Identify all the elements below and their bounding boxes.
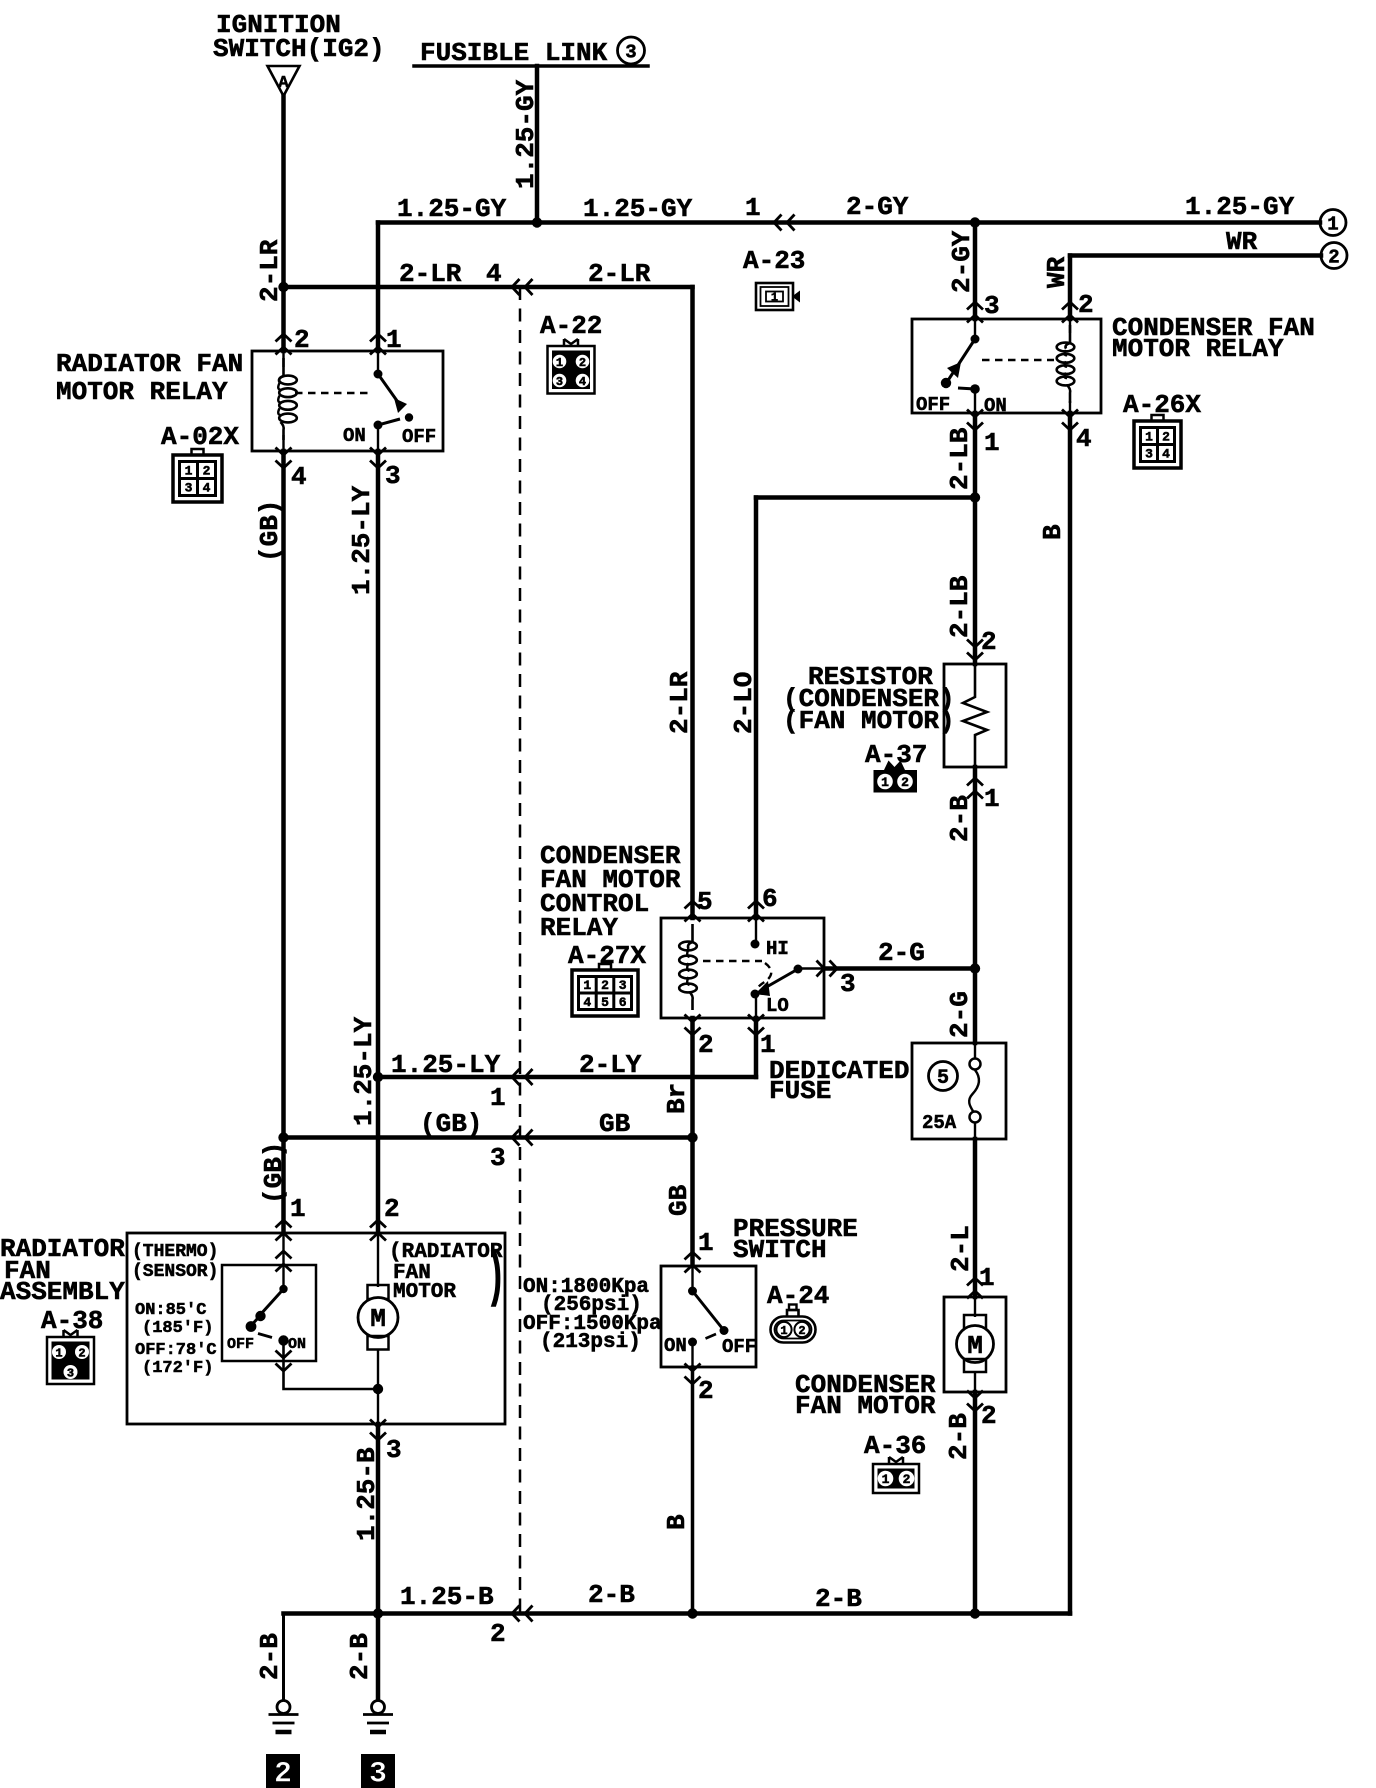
wire <box>974 393 976 413</box>
contact mid <box>255 1311 265 1321</box>
svg-text:MOTOR: MOTOR <box>393 1281 456 1304</box>
wire Br/GB ctrl pin2 to pressure switch <box>690 1018 695 1266</box>
wire 2-LR down to ctrl relay pin5 <box>690 287 695 918</box>
thermo sensor exit chevrons <box>276 1364 292 1372</box>
ground marker square 3 <box>361 1754 395 1788</box>
wire 2-LO down to ctrl relay pin6 <box>754 498 759 919</box>
svg-text:WR: WR <box>1042 256 1072 288</box>
svg-text:ON:85'C: ON:85'C <box>135 1301 206 1320</box>
svg-text:MOTOR RELAY: MOTOR RELAY <box>56 377 228 407</box>
wire <box>763 969 798 989</box>
svg-text:3: 3 <box>625 41 636 63</box>
svg-text:1.25-LY: 1.25-LY <box>349 1016 379 1126</box>
wire <box>377 429 379 451</box>
svg-text:1.25-GY: 1.25-GY <box>511 79 541 189</box>
svg-text:1: 1 <box>1145 430 1153 445</box>
contact common <box>374 370 383 379</box>
pin 6 chevrons control relay <box>748 901 764 909</box>
svg-text:1: 1 <box>386 325 402 355</box>
svg-text:ON: ON <box>288 1336 306 1353</box>
svg-text:GB: GB <box>599 1109 631 1139</box>
junction <box>687 1608 697 1618</box>
pin 2 chevrons control relay <box>685 1028 701 1036</box>
pin 1 chevrons condenser motor <box>967 1278 983 1286</box>
wire 1.25-GY bus <box>378 220 1320 225</box>
connector A-37 <box>874 761 918 793</box>
wire <box>974 1043 976 1058</box>
svg-text:1.25-GY: 1.25-GY <box>583 194 693 224</box>
svg-text:2-LB: 2-LB <box>945 575 975 638</box>
svg-text:2: 2 <box>384 1194 400 1224</box>
svg-text:1: 1 <box>185 464 193 479</box>
svg-text:A-22: A-22 <box>540 311 602 341</box>
svg-text:B: B <box>1038 524 1068 540</box>
contact common <box>971 335 980 344</box>
wire <box>755 918 757 944</box>
svg-text:1.25-LY: 1.25-LY <box>347 485 377 595</box>
svg-text:3: 3 <box>619 978 627 993</box>
svg-text:M: M <box>370 1304 386 1334</box>
svg-text:1: 1 <box>979 1263 995 1293</box>
wire 2-B to ground 2 <box>282 1614 285 1701</box>
pin 2 chevrons condenser relay <box>1062 302 1078 310</box>
svg-text:(172'F): (172'F) <box>142 1359 213 1378</box>
wire <box>958 388 975 389</box>
svg-text:A: A <box>278 74 289 93</box>
connector A-02X <box>173 449 222 502</box>
svg-text:OFF: OFF <box>402 426 436 448</box>
svg-text:2-G: 2-G <box>878 938 925 968</box>
svg-text:2: 2 <box>1162 430 1170 445</box>
junction <box>278 282 288 292</box>
dashed link single dash <box>258 1334 272 1338</box>
svg-text:2: 2 <box>274 1758 292 1788</box>
connector pass 3 on GB <box>512 1130 520 1146</box>
ignition switch terminal A triangle <box>268 66 300 96</box>
svg-text:2: 2 <box>579 356 586 370</box>
svg-text:OFF:78'C: OFF:78'C <box>135 1341 217 1360</box>
svg-text:ASSEMBLY: ASSEMBLY <box>0 1277 125 1307</box>
svg-text:2-LO: 2-LO <box>729 672 759 734</box>
svg-text:2-B: 2-B <box>945 795 975 842</box>
svg-text:1: 1 <box>882 1472 890 1487</box>
wire <box>691 1266 693 1291</box>
svg-text:1: 1 <box>984 428 1000 458</box>
svg-text:4: 4 <box>1162 447 1170 462</box>
svg-text:GB: GB <box>664 1184 694 1216</box>
svg-text:1: 1 <box>745 193 761 223</box>
contact top <box>688 1287 697 1296</box>
fusible link underline <box>414 64 648 68</box>
wire <box>377 1233 379 1287</box>
svg-text:1: 1 <box>771 291 778 305</box>
svg-text:A-24: A-24 <box>767 1281 829 1311</box>
svg-text:2: 2 <box>601 978 609 993</box>
svg-text:WR: WR <box>1226 227 1258 257</box>
wire 2-LY riser to ctrl pin1 <box>754 1018 759 1077</box>
connector A-26X <box>1134 415 1181 468</box>
wire 2-G from ctrl relay pin3 <box>824 966 975 971</box>
svg-text:25A: 25A <box>922 1112 957 1134</box>
svg-text:B: B <box>662 1514 692 1530</box>
svg-text:FUSE: FUSE <box>769 1076 831 1106</box>
svg-text:(GB): (GB) <box>255 500 285 562</box>
wire <box>377 1350 379 1425</box>
svg-text:3: 3 <box>386 1435 402 1465</box>
svg-text:ON: ON <box>984 395 1007 417</box>
svg-text:2-GY: 2-GY <box>846 192 909 222</box>
pin 5 chevrons control relay <box>685 901 701 909</box>
svg-text:1: 1 <box>290 1194 306 1224</box>
pin 2 chevrons resistor <box>967 653 983 661</box>
svg-text:ON: ON <box>664 1335 687 1357</box>
coil control relay <box>688 924 693 949</box>
junction <box>278 1132 288 1142</box>
connector pass 1 on 1.25-GY bus <box>774 215 782 231</box>
wire 2-GY drop to cond relay pin3 <box>973 223 978 320</box>
svg-text:2-B: 2-B <box>815 1584 862 1614</box>
svg-text:1: 1 <box>881 775 889 790</box>
wire 2-LR ignition drop <box>281 96 286 351</box>
pin 1 chevrons control relay <box>748 1028 764 1036</box>
svg-text:1: 1 <box>583 978 591 993</box>
wire <box>378 374 400 405</box>
wire B pressure switch to bus <box>691 1367 695 1614</box>
svg-text:3: 3 <box>556 375 563 389</box>
junction <box>532 217 542 227</box>
svg-text:1: 1 <box>55 1346 62 1360</box>
svg-text:2-LR: 2-LR <box>255 239 285 302</box>
pin 2 chevrons condenser motor <box>967 1404 983 1412</box>
wire (GB) radiator relay pin4 down <box>281 451 286 1233</box>
svg-text:SWITCH: SWITCH <box>733 1235 827 1265</box>
connector A-23 <box>756 283 800 310</box>
ground 2 <box>269 1701 299 1733</box>
wire <box>260 1289 284 1315</box>
junction <box>373 1072 383 1082</box>
svg-text:1.25-GY: 1.25-GY <box>397 194 507 224</box>
wire B cond relay pin4 down <box>1068 413 1073 1614</box>
dashed harness boundary <box>519 287 522 1614</box>
svg-text:2: 2 <box>1078 290 1094 320</box>
relay actuation dashed link <box>982 359 1054 361</box>
connector pass 1 on 2-LY <box>512 1069 520 1085</box>
svg-text:2-LR: 2-LR <box>399 259 462 289</box>
wire 2-LB cond relay pin1 to resistor <box>973 413 978 664</box>
wire <box>252 1317 260 1326</box>
pin 1 chevrons resistor <box>967 778 983 786</box>
wire <box>974 1372 976 1392</box>
svg-text:2-G: 2-G <box>945 991 975 1038</box>
svg-text:(SENSOR): (SENSOR) <box>132 1262 218 1282</box>
svg-text:3: 3 <box>1145 447 1153 462</box>
svg-text:OFF: OFF <box>227 1336 254 1353</box>
svg-text:ON: ON <box>343 425 366 447</box>
connector pass 2 on 2-B bus <box>512 1606 520 1622</box>
resistor box A-37 <box>944 664 1006 767</box>
pin 3 chevrons radiator relay <box>370 461 386 469</box>
svg-text:4: 4 <box>291 462 307 492</box>
thermo sensor box <box>222 1265 316 1361</box>
wire WR drop to cond relay pin2 <box>1068 256 1073 320</box>
wire 2-LB/2-LO branch <box>756 495 975 500</box>
svg-text:1.25-B: 1.25-B <box>352 1447 382 1541</box>
svg-text:2: 2 <box>698 1030 714 1060</box>
connector A-36 <box>873 1457 919 1493</box>
contact OFF <box>405 413 413 421</box>
svg-text:4: 4 <box>1076 424 1092 454</box>
dashed link single dash <box>706 1334 717 1339</box>
svg-text:(GB): (GB) <box>420 1109 482 1139</box>
wire <box>377 351 379 374</box>
ground marker square 2 <box>266 1754 300 1788</box>
svg-text:A-02X: A-02X <box>161 422 239 452</box>
condenser fan motor box <box>944 1297 1006 1392</box>
ground 3 <box>363 1701 393 1733</box>
wire 2-LY horizontal <box>378 1075 756 1080</box>
wire 2-LR horizontal <box>284 285 693 290</box>
junction <box>373 1608 383 1618</box>
wire <box>755 996 757 1018</box>
junction <box>970 492 980 502</box>
svg-text:2: 2 <box>490 1619 506 1649</box>
dedicated fuse box <box>912 1043 1006 1139</box>
pin 2 chevrons assembly <box>370 1220 386 1228</box>
relay actuation dashed link <box>295 392 370 394</box>
svg-text:2-L: 2-L <box>946 1225 976 1272</box>
svg-text:2: 2 <box>901 775 909 790</box>
svg-text:2-B: 2-B <box>588 1580 635 1610</box>
wire 2-L fuse to condenser fan motor <box>973 1139 978 1297</box>
svg-text:5: 5 <box>697 887 713 917</box>
svg-text:3: 3 <box>840 969 856 999</box>
connector pass 4 on 2-LR <box>512 279 520 295</box>
pin 2 chevrons radiator relay <box>276 334 292 342</box>
svg-text:A-38: A-38 <box>41 1306 103 1336</box>
wire <box>798 967 824 969</box>
svg-text:1: 1 <box>490 1083 506 1113</box>
svg-text:3: 3 <box>185 481 193 496</box>
svg-text:RADIATOR FAN: RADIATOR FAN <box>56 349 243 379</box>
svg-text:3: 3 <box>984 291 1000 321</box>
svg-text:(213psi): (213psi) <box>540 1331 641 1354</box>
svg-text:2-LR: 2-LR <box>588 259 651 289</box>
svg-text:(RADIATOR: (RADIATOR <box>389 1241 503 1264</box>
svg-text:2: 2 <box>981 627 997 657</box>
wire <box>974 1122 976 1139</box>
fuse number circle 5 <box>929 1062 958 1091</box>
wire <box>947 339 975 382</box>
svg-text:M: M <box>967 1331 983 1361</box>
wire <box>378 419 400 425</box>
svg-text:4: 4 <box>486 259 502 289</box>
terminal circle 1 <box>1320 210 1346 236</box>
wire <box>969 1070 979 1112</box>
wire 2-B/2-G resistor to fuse <box>973 767 978 1043</box>
fusible link circle 3 <box>618 37 645 64</box>
svg-text:): ) <box>487 1246 505 1311</box>
contact top <box>279 1285 287 1293</box>
contact ON <box>688 1338 697 1347</box>
svg-text:2: 2 <box>78 1346 85 1360</box>
svg-text:(185'F): (185'F) <box>142 1319 213 1338</box>
svg-text:OFF: OFF <box>722 1336 756 1358</box>
svg-text:1: 1 <box>984 784 1000 814</box>
wire 1.25-GY drop to relay pin1 <box>376 223 381 352</box>
relay box radiator fan motor relay <box>252 351 443 451</box>
coil radiator fan motor relay <box>279 358 284 382</box>
wire <box>974 1297 976 1317</box>
wire <box>282 1233 284 1289</box>
svg-text:2: 2 <box>798 1324 805 1338</box>
contact common <box>794 965 803 974</box>
junction <box>970 1608 980 1618</box>
svg-text:3: 3 <box>369 1758 387 1788</box>
svg-text:2: 2 <box>903 1472 911 1487</box>
svg-text:2: 2 <box>203 464 211 479</box>
thermo sensor entry chevrons <box>276 1251 292 1259</box>
pin 1 chevrons radiator relay <box>370 334 386 342</box>
pin 1 chevrons pressure switch <box>685 1252 701 1260</box>
svg-text:1.25-GY: 1.25-GY <box>1185 192 1295 222</box>
wire thermo to motor link <box>284 1341 379 1390</box>
svg-text:A-36: A-36 <box>864 1431 926 1461</box>
relay dashed arc <box>757 963 771 989</box>
connector A-38 <box>47 1330 94 1384</box>
pin 3 chevrons condenser relay <box>967 302 983 310</box>
svg-text:SWITCH(IG2): SWITCH(IG2) <box>213 34 385 64</box>
svg-text:2-B: 2-B <box>345 1633 375 1680</box>
contact OFF <box>941 378 951 388</box>
svg-text:Br: Br <box>662 1083 692 1114</box>
svg-text:2-LB: 2-LB <box>945 427 975 490</box>
svg-text:(THERMO): (THERMO) <box>132 1242 218 1262</box>
contact OFF side <box>720 1326 729 1335</box>
wire <box>691 1342 693 1367</box>
junction <box>373 1384 383 1394</box>
contact ON <box>374 421 383 430</box>
svg-text:A-23: A-23 <box>743 246 805 276</box>
svg-text:6: 6 <box>762 884 778 914</box>
terminal circle 2 <box>1321 243 1347 269</box>
svg-text:2-GY: 2-GY <box>947 230 977 293</box>
svg-text:MOTOR RELAY: MOTOR RELAY <box>1112 334 1284 364</box>
pin 1 chevrons assembly <box>276 1220 292 1228</box>
wire 1.25-LY relay pin3 down <box>376 451 381 1233</box>
connector A-24 <box>771 1305 816 1343</box>
svg-text:FAN MOTOR: FAN MOTOR <box>795 1391 936 1421</box>
svg-text:4: 4 <box>583 995 591 1010</box>
svg-text:1: 1 <box>780 1324 787 1338</box>
wire <box>1069 319 1071 413</box>
wire <box>963 664 987 767</box>
pin 1 chevrons condenser relay <box>967 423 983 431</box>
pin 4 chevrons condenser relay <box>1062 423 1078 431</box>
pin 3 chevrons control relay <box>830 961 838 977</box>
svg-text:A-26X: A-26X <box>1123 390 1201 420</box>
svg-text:3: 3 <box>490 1143 506 1173</box>
pin 4 chevrons radiator relay <box>276 461 292 469</box>
wire <box>974 319 976 339</box>
junction <box>970 217 980 227</box>
junction <box>687 1132 697 1142</box>
contact LO <box>751 990 760 999</box>
svg-text:1.25-B: 1.25-B <box>400 1582 494 1612</box>
svg-text:5: 5 <box>601 995 609 1010</box>
relay dashed link <box>703 960 762 962</box>
svg-text:1: 1 <box>698 1228 714 1258</box>
svg-text:A-27X: A-27X <box>568 941 646 971</box>
wire <box>282 351 284 451</box>
svg-text:(GB): (GB) <box>259 1142 289 1204</box>
coil condenser fan motor relay <box>1066 325 1071 349</box>
svg-text:2: 2 <box>698 1376 714 1406</box>
svg-text:1: 1 <box>1327 213 1338 235</box>
radiator fan assembly box A-38 <box>127 1233 505 1424</box>
wire fusible link drop <box>535 66 540 223</box>
junction <box>970 963 980 973</box>
svg-text:A-37: A-37 <box>865 740 927 770</box>
wire 2-B bottom bus <box>284 1611 1071 1616</box>
relay box condenser fan motor relay <box>912 319 1101 413</box>
pin 2 chevrons pressure switch <box>685 1377 701 1385</box>
wire 1.25-B assembly pin3 to ground 3 <box>376 1424 381 1700</box>
svg-text:2: 2 <box>294 325 310 355</box>
svg-text:3: 3 <box>385 461 401 491</box>
svg-text:1.25-LY: 1.25-LY <box>391 1050 501 1080</box>
contact ON <box>278 1335 288 1345</box>
svg-text:RELAY: RELAY <box>540 913 618 943</box>
svg-text:HI: HI <box>766 938 789 960</box>
svg-text:LO: LO <box>766 995 789 1017</box>
wire 2-B condenser motor to bus <box>973 1392 978 1614</box>
svg-text:2-B: 2-B <box>944 1413 974 1460</box>
svg-text:FUSIBLE LINK: FUSIBLE LINK <box>420 38 608 68</box>
connector A-22 <box>548 339 595 394</box>
svg-text:4: 4 <box>579 375 586 389</box>
svg-text:2: 2 <box>1328 246 1339 268</box>
pressure switch box A-24 <box>661 1266 756 1367</box>
wire GB horizontal <box>284 1135 693 1140</box>
contact HI <box>751 940 760 949</box>
contact ON <box>970 384 980 394</box>
contact OFF <box>246 1321 257 1332</box>
svg-text:3: 3 <box>67 1366 74 1380</box>
svg-text:(FAN MOTOR): (FAN MOTOR) <box>783 706 955 736</box>
connector A-27X <box>572 964 638 1016</box>
svg-text:2-LR: 2-LR <box>665 671 695 734</box>
svg-text:6: 6 <box>619 995 627 1010</box>
svg-text:2: 2 <box>981 1401 997 1431</box>
svg-text:1: 1 <box>556 356 563 370</box>
wire WR horizontal <box>1070 253 1321 258</box>
wire <box>693 1291 723 1328</box>
svg-text:2-LY: 2-LY <box>579 1050 642 1080</box>
svg-text:5: 5 <box>937 1067 949 1090</box>
svg-text:2-B: 2-B <box>255 1633 285 1680</box>
svg-text:OFF: OFF <box>916 394 950 416</box>
relay box condenser fan motor control relay <box>661 918 824 1018</box>
pin 3 chevrons assembly <box>370 1433 386 1441</box>
svg-text:4: 4 <box>203 481 211 496</box>
